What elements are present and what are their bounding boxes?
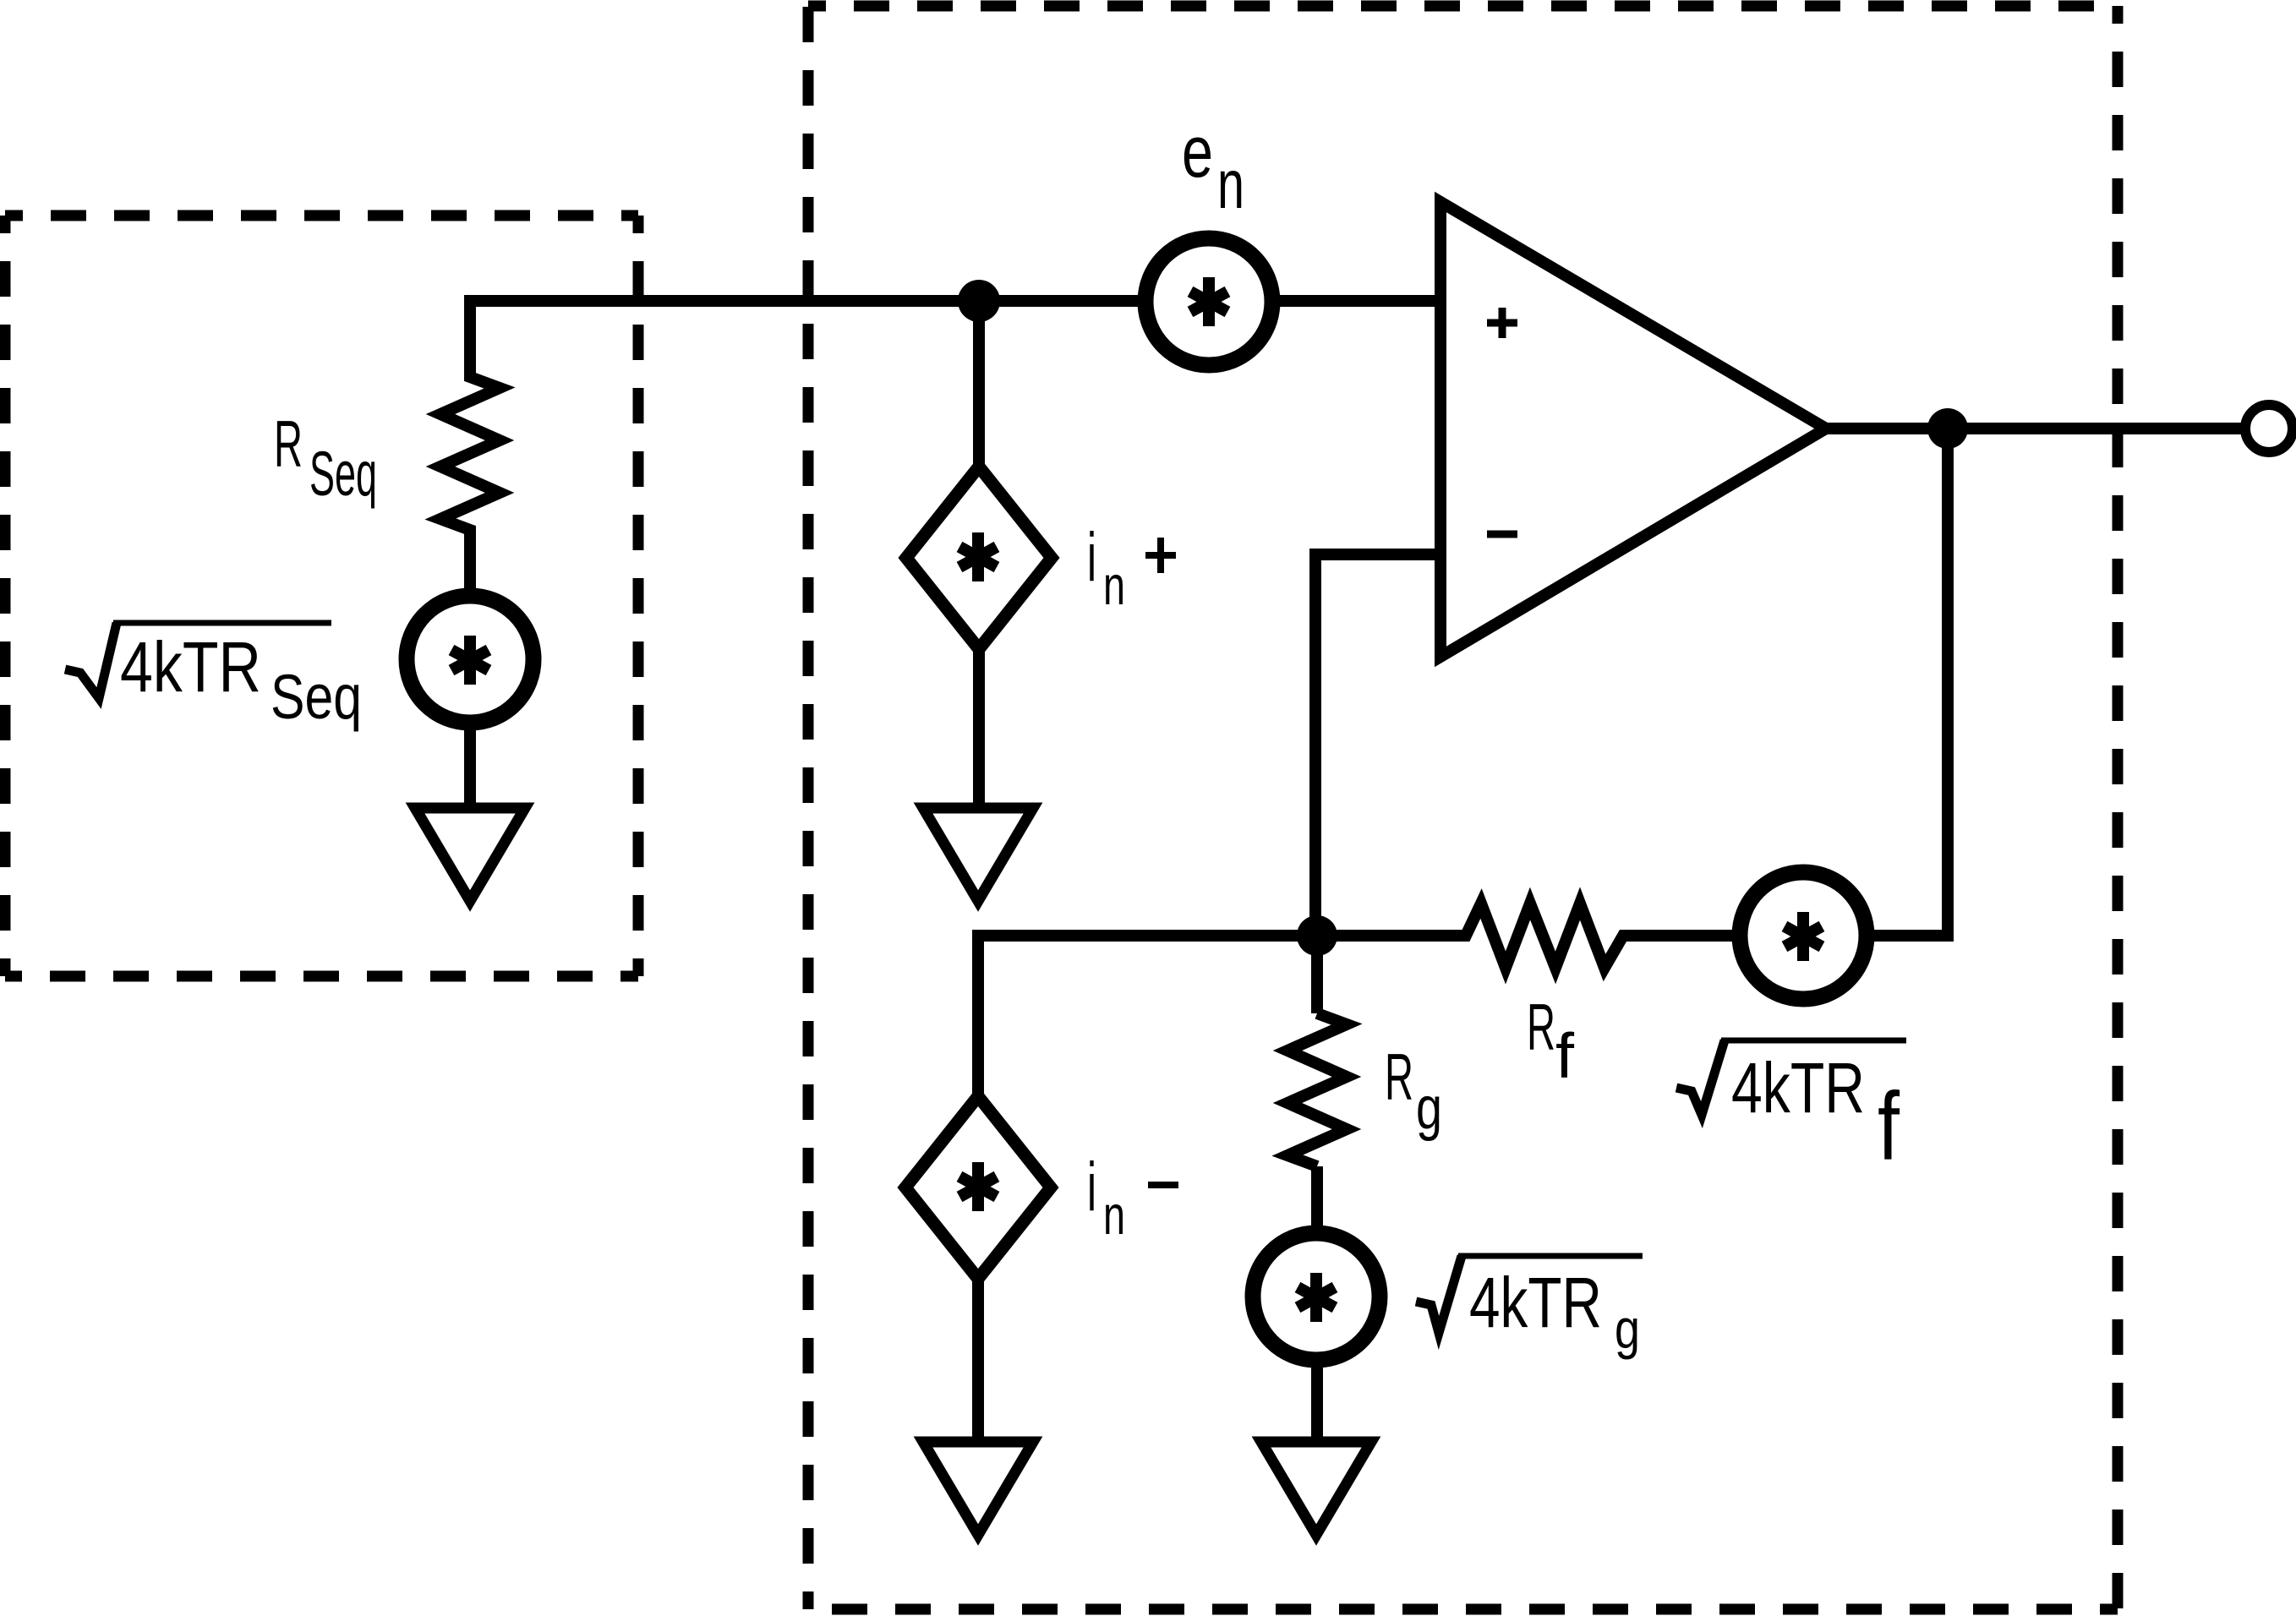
wire: main input wire, RSeq branch chain xyxy=(440,301,1440,804)
ground (Rg chain) xyxy=(1261,1442,1371,1535)
svg-text:f: f xyxy=(1555,1020,1574,1091)
svg-text:n: n xyxy=(1103,554,1125,616)
wire: - input stub and vertical to feedback node xyxy=(1315,554,1440,936)
wire: junction down to in+ diamond and ground xyxy=(973,301,985,803)
svg-text:Seq: Seq xyxy=(309,439,377,509)
node: feedback junction dot xyxy=(1297,915,1337,956)
svg-text:g: g xyxy=(1416,1075,1442,1142)
svg-text:Seq: Seq xyxy=(271,662,362,732)
svg-text:4kTR: 4kTR xyxy=(1469,1263,1602,1342)
noise source sqrt(4kTRSeq) circle xyxy=(407,596,533,723)
node: junction dot on + input wire xyxy=(958,280,1000,322)
svg-text:R: R xyxy=(1385,1040,1413,1114)
label sqrt(4kTRg) xyxy=(1416,1256,1462,1333)
noise source sqrt(4kTRg) circle xyxy=(1253,1233,1380,1360)
resistor Rg xyxy=(1287,1013,1347,1166)
op-amp noise model dashed box (right) xyxy=(808,6,2118,1609)
wire: op-amp output xyxy=(1826,423,2244,434)
svg-text:n: n xyxy=(1217,146,1244,223)
noise source sqrt(4kTRf) circle xyxy=(1740,872,1867,999)
svg-text:4kTR: 4kTR xyxy=(1731,1048,1865,1127)
voltage noise source en circle xyxy=(1145,238,1272,365)
svg-text:f: f xyxy=(1878,1073,1900,1181)
op-amp U1 xyxy=(1440,202,1826,657)
svg-text:e: e xyxy=(1182,112,1213,193)
svg-text:i: i xyxy=(1087,1149,1096,1226)
output terminal xyxy=(2245,405,2293,452)
label sqrt(4kTRf) xyxy=(1676,1040,1725,1115)
svg-text:n: n xyxy=(1103,1184,1125,1246)
svg-text:g: g xyxy=(1615,1297,1640,1360)
wire: feedback network with resistor Rf xyxy=(978,429,1948,1437)
current noise source in- diamond xyxy=(905,1096,1051,1279)
svg-text:i: i xyxy=(1087,519,1096,596)
ground (RSeq chain) xyxy=(415,808,525,901)
svg-text:R: R xyxy=(274,407,303,481)
label sqrt(4kTRSeq) xyxy=(65,623,117,698)
wire: junction down to Rg xyxy=(1311,936,1323,1013)
ground (in-) xyxy=(923,1442,1033,1535)
svg-text:R: R xyxy=(1527,990,1555,1064)
current noise source in+ diamond xyxy=(906,467,1052,649)
source-network dashed box (left) xyxy=(5,216,638,976)
svg-text:4kTR: 4kTR xyxy=(120,627,261,707)
node: output junction dot xyxy=(1927,408,1968,449)
wire: Rg to noise source to ground xyxy=(1311,1166,1323,1438)
ground (in+) xyxy=(923,808,1033,901)
